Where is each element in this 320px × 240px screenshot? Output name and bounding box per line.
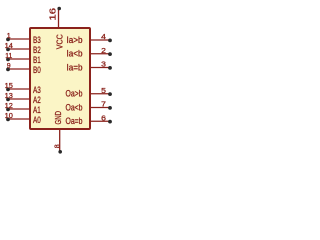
svg-text:GND: GND xyxy=(53,111,63,125)
wire pin 8 (GND) vertical xyxy=(59,129,61,152)
wire pin 9 (B0) xyxy=(8,68,30,70)
svg-text:10: 10 xyxy=(5,113,13,120)
svg-text:VCC: VCC xyxy=(54,34,64,49)
wire pin 12 (A1) xyxy=(8,108,30,110)
node pin 10 end dot xyxy=(6,118,10,122)
IC body U1 (4-bit magnitude comparator) xyxy=(30,28,90,129)
svg-text:3: 3 xyxy=(101,60,106,69)
wire pin 16 (VCC) vertical xyxy=(58,9,60,29)
node pin 14 end dot xyxy=(6,48,10,52)
svg-text:8: 8 xyxy=(54,144,61,148)
svg-text:16: 16 xyxy=(49,7,58,20)
svg-text:6: 6 xyxy=(101,113,106,122)
wire pin 13 (A2) xyxy=(8,98,30,100)
svg-text:9: 9 xyxy=(7,63,11,70)
svg-text:Oa=b: Oa=b xyxy=(66,116,83,126)
node pin 1 end dot xyxy=(6,38,10,42)
node pin 3 end dot xyxy=(108,66,112,70)
svg-text:Ia>b: Ia>b xyxy=(67,35,83,45)
svg-text:Oa>b: Oa>b xyxy=(66,89,83,99)
node pin 13 end dot xyxy=(6,98,10,102)
wire pin 14 (B2) xyxy=(8,48,30,50)
node pin 8 end dot xyxy=(58,150,62,154)
svg-text:B0: B0 xyxy=(33,64,41,75)
wire pin 15 (A3) xyxy=(8,88,30,90)
svg-text:Ia<b: Ia<b xyxy=(67,49,83,59)
wire pin 5 (Oa>b) xyxy=(90,93,110,95)
svg-text:13: 13 xyxy=(5,93,13,100)
svg-text:4: 4 xyxy=(101,32,106,41)
svg-text:Ia=b: Ia=b xyxy=(67,62,83,72)
node pin 6 end dot xyxy=(108,120,112,124)
wire pin 4 (Ia>b) xyxy=(90,39,110,41)
svg-text:15: 15 xyxy=(5,83,13,90)
svg-text:11: 11 xyxy=(5,53,12,60)
node pin 2 end dot xyxy=(108,52,112,56)
node pin 11 end dot xyxy=(6,58,10,62)
wire pin 3 (Ia=b) xyxy=(90,67,110,69)
node pin 5 end dot xyxy=(108,92,112,96)
node pin 16 end dot xyxy=(57,7,61,11)
wire pin 11 (B1) xyxy=(8,58,30,60)
node pin 9 end dot xyxy=(6,68,10,72)
node pin 15 end dot xyxy=(6,88,10,92)
svg-text:2: 2 xyxy=(101,46,106,55)
wire pin 2 (Ia<b) xyxy=(90,53,110,55)
svg-text:Oa<b: Oa<b xyxy=(66,102,83,112)
wire pin 10 (A0) xyxy=(8,118,30,120)
svg-text:14: 14 xyxy=(5,43,13,50)
wire pin 6 (Oa=b) xyxy=(90,120,110,122)
node pin 4 end dot xyxy=(108,39,112,43)
wire pin 7 (Oa<b) xyxy=(90,107,110,109)
node pin 12 end dot xyxy=(6,108,10,112)
svg-text:1: 1 xyxy=(7,33,11,40)
node pin 7 end dot xyxy=(108,106,112,110)
svg-text:12: 12 xyxy=(5,103,13,110)
wire pin 1 (B3) xyxy=(8,38,30,40)
svg-text:7: 7 xyxy=(101,100,106,109)
svg-text:A0: A0 xyxy=(33,114,41,125)
svg-text:5: 5 xyxy=(101,86,106,95)
